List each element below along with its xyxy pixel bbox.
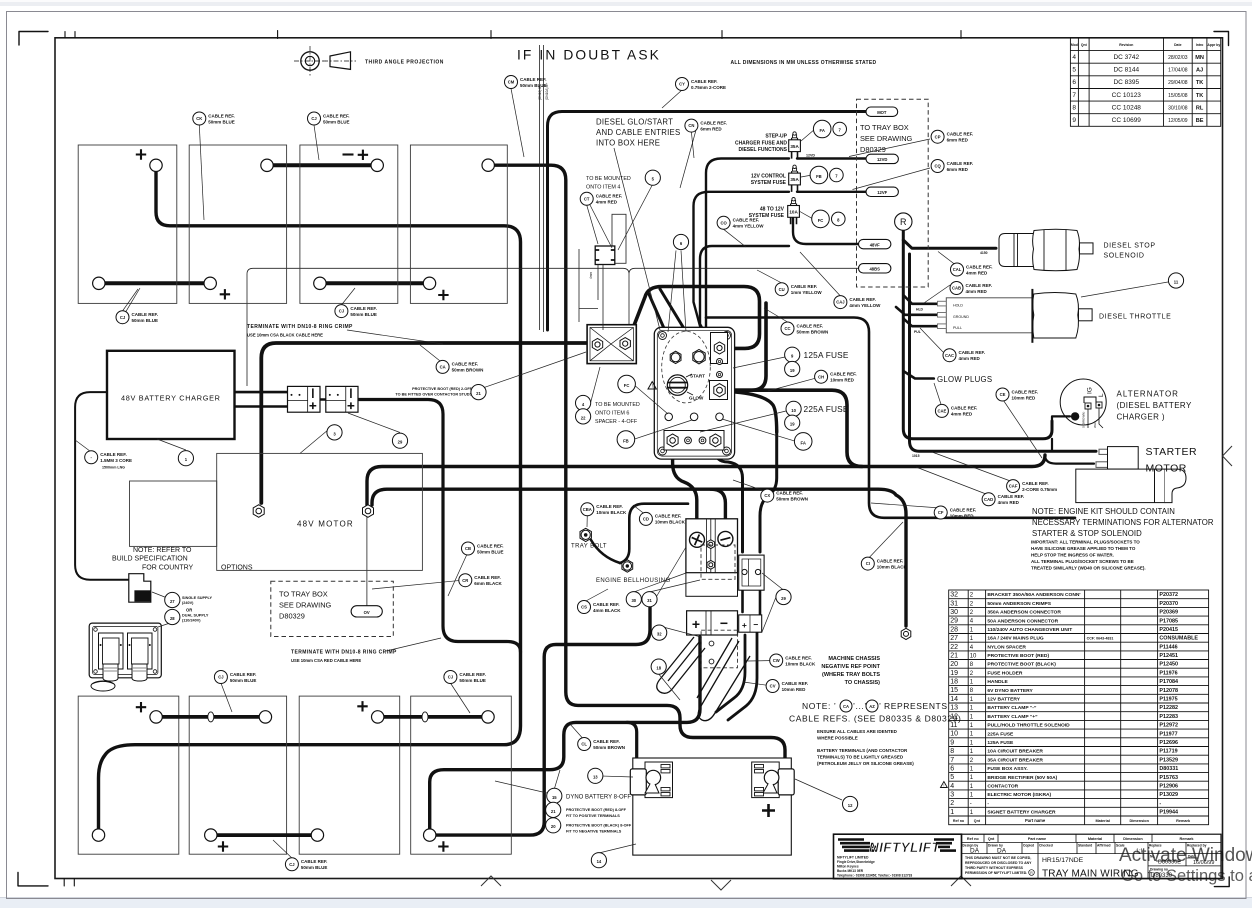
svg-text:ENSURE ALL CABLES ARE IDENTED: ENSURE ALL CABLES ARE IDENTED [817,729,898,734]
svg-text:50mm BLUE: 50mm BLUE [208,119,235,124]
svg-text:CY: CY [679,82,685,87]
wire: contactor loop over panel (n-loop) [628,287,760,349]
svg-text:OR: OR [186,608,192,613]
svg-text:19: 19 [790,368,795,373]
wire: CL 50mm brown from lower bank 4 up to anderson assembly [430,637,700,829]
plus terminal circle [689,532,704,547]
svg-text:TRAY BOLT: TRAY BOLT [571,544,607,550]
battery box row2-1 [78,696,179,854]
svg-text:FB: FB [623,438,629,443]
battery box row1-4 [410,145,507,303]
svg-text:CI: CI [866,561,870,566]
svg-text:Part name: Part name [1028,837,1046,841]
svg-text:30/10/08: 30/10/08 [1168,105,1188,111]
svg-text:50mm BLUE: 50mm BLUE [459,678,486,683]
plus marks row2 [136,702,146,712]
tray bolt [580,528,591,541]
svg-text:50A ANDERSON CONNECTOR: 50A ANDERSON CONNECTOR [987,618,1058,624]
MOT oval [866,107,898,116]
svg-text:SINGLE SUPPLY: SINGLE SUPPLY [182,596,212,600]
fuse FC 10A 48-12V [788,198,800,225]
svg-text:MOTOR: MOTOR [1146,463,1187,475]
svg-text:6mm RED: 6mm RED [947,167,969,172]
svg-text:(WHERE TRAY BOLTS: (WHERE TRAY BOLTS [822,672,880,678]
panel right terminal strip [711,333,728,364]
svg-text:110/240V AUTO CHANGEOVER UNIT: 110/240V AUTO CHANGEOVER UNIT [987,627,1072,633]
350A anderson connector assembly [686,519,738,597]
svg-text:OPTIONS: OPTIONS [221,564,253,571]
svg-text:Fingle Drive,Stonebridge: Fingle Drive,Stonebridge [837,860,875,864]
svg-text:Date: Date [1174,43,1181,47]
svg-text:Milton Keynes: Milton Keynes [837,865,859,869]
cable label CI [861,557,907,570]
wire: throttle hold stub [903,295,937,304]
svg-text:P17085: P17085 [1159,618,1178,624]
svg-text:NYLON SPACER: NYLON SPACER [987,644,1026,650]
svg-text:4mm RED: 4mm RED [951,412,973,417]
svg-text:29: 29 [398,440,403,445]
svg-text:0.75mm 2-CORE: 0.75mm 2-CORE [691,85,726,90]
cable label CAJ [834,296,881,309]
svg-text:DUAL SUPPLY: DUAL SUPPLY [182,614,209,618]
cable label CM [505,76,547,89]
svg-text:10mm RED: 10mm RED [950,513,975,518]
svg-text:CD: CD [643,517,649,522]
wire: R branch to diesel stop solenoid [903,240,996,248]
svg-text:Telephone:- 01908 223456; Tele: Telephone:- 01908 223456; Telefax:- 0190… [837,874,912,878]
wire: 48VF feed from 10A breaker [700,218,861,346]
svg-text:4: 4 [950,783,954,790]
item circle 1 [178,451,193,466]
svg-text:SEE DRAWING: SEE DRAWING [279,601,332,610]
svg-text:50mm BLUE: 50mm BLUE [301,865,328,870]
svg-text:PUL: PUL [914,330,921,334]
dashed bracket item30/31 [701,545,735,579]
corner trim mark bottom-left [18,873,48,886]
svg-text:FA: FA [801,440,806,445]
svg-text:2: 2 [950,800,954,807]
svg-text:REPRODUCED OR DISCLOSED TO ANY: REPRODUCED OR DISCLOSED TO ANY [965,861,1032,865]
starter motor [1076,447,1186,503]
parts table [949,590,1209,825]
svg-text:−: − [753,620,758,630]
svg-text:Revision: Revision [1119,43,1133,47]
busbars row2 [162,715,488,719]
item circle 13 [588,768,603,783]
svg-text:CAC: CAC [945,353,954,358]
wire: FA terminal loop down right [730,392,777,433]
svg-text:CABLE REF.: CABLE REF. [785,655,812,660]
svg-text:SOLENOID: SOLENOID [1104,253,1145,260]
item circle 21 [471,385,486,400]
svg-text:NOTE: REFER TO: NOTE: REFER TO [133,547,192,554]
item circle 14 [591,853,606,868]
svg-text:Ref no: Ref no [953,819,965,823]
svg-text:(DIESEL BATTERY: (DIESEL BATTERY [1117,401,1192,410]
svg-text:125A FUSE: 125A FUSE [987,740,1014,746]
wire: battery 4 top terminal down the middle (CM 50mm blue) [494,165,785,764]
svg-text:CE: CE [1000,392,1006,397]
svg-text:CT: CT [584,196,590,201]
svg-text:CABLE REF.: CABLE REF. [459,672,486,677]
svg-text:6V DYNO BATTERY: 6V DYNO BATTERY [987,688,1033,694]
fuse box panel (item 6) [654,327,734,459]
svg-text:29: 29 [781,596,786,601]
svg-text:CR: CR [462,578,468,583]
svg-text:CHARGER ): CHARGER ) [1117,413,1166,422]
wire: charger to anderson connector pair [235,392,326,406]
svg-text:CABLE REF.: CABLE REF. [830,372,857,377]
item circle 4 [576,395,591,410]
svg-text:CC 10248: CC 10248 [1112,104,1142,111]
svg-text:CC: CC [784,326,790,331]
svg-text:CC 10699: CC 10699 [1112,117,1142,124]
cable label CK [193,112,235,125]
svg-text:16A / 240V MAINS PLUG: 16A / 240V MAINS PLUG [987,636,1044,642]
svg-text:-: - [1159,801,1161,807]
frame tick marks bottom edge [64,879,74,887]
svg-text:-: - [970,801,972,807]
svg-text:STEP-UP: STEP-UP [765,134,787,140]
item circle 5 [645,170,660,185]
svg-text:CONTACTOR: CONTACTOR [987,783,1018,789]
svg-text:D80329: D80329 [279,612,305,621]
svg-text:12V CONTROL: 12V CONTROL [751,173,786,179]
svg-text:CABLE REF.: CABLE REF. [655,514,682,519]
svg-text:CABLE REF.: CABLE REF. [966,283,993,288]
svg-text:CU: CU [779,287,785,292]
svg-text:10mm BLACK: 10mm BLACK [596,510,627,515]
svg-text:P12696: P12696 [1159,740,1178,746]
svg-text:TK: TK [1196,93,1203,99]
svg-text:50mm BLUE: 50mm BLUE [477,549,504,554]
svg-text:48VF: 48VF [870,242,880,247]
svg-text:31: 31 [647,598,652,603]
svg-text:6: 6 [950,766,954,773]
svg-text:TO TRAY BOX: TO TRAY BOX [860,123,909,132]
svg-text:6mm BLACK: 6mm BLACK [474,581,502,586]
frame centering arrow right edge [1223,446,1233,466]
svg-text:Standard: Standard [1078,843,1092,847]
warning triangle on panel [648,382,656,390]
svg-text:CP: CP [935,134,941,139]
svg-text:P11976: P11976 [1159,670,1177,676]
item circle 32 [652,625,667,640]
svg-text:BATTERY TERMINALS (AND CONTACT: BATTERY TERMINALS (AND CONTACTOR [817,748,908,753]
svg-text:D80331: D80331 [1159,766,1178,772]
cable label CO [717,216,764,229]
svg-text:DC 8144: DC 8144 [1113,67,1139,74]
svg-text:FOR COUNTRY: FOR COUNTRY [142,564,194,571]
svg-text:THIRD ANGLE PROJECTION: THIRD ANGLE PROJECTION [365,60,444,66]
svg-text:P20372: P20372 [1159,592,1178,598]
wire: CF red wire to starter motor [706,318,1075,518]
svg-text:32: 32 [657,631,662,636]
svg-text:P11446: P11446 [1159,644,1177,650]
svg-text:350A ANDERSON CONNECTOR: 350A ANDERSON CONNECTOR [987,610,1061,616]
cable label CA [436,360,483,373]
svg-text:48 TO 12V: 48 TO 12V [760,206,785,212]
svg-text:MN: MN [1195,55,1204,61]
svg-text:50mm BLUE: 50mm BLUE [132,318,159,323]
svg-text:12V BATTERY: 12V BATTERY [987,697,1020,703]
svg-text:PULL: PULL [953,326,962,330]
svg-text:PROTECTIVE BOOT (BLACK): PROTECTIVE BOOT (BLACK) [987,662,1056,668]
svg-text:CO: CO [720,220,727,225]
svg-text:30: 30 [631,598,636,603]
lower anderson connector [687,611,738,635]
corner trim mark top-right [1214,32,1229,46]
svg-text:Mod: Mod [1071,43,1078,47]
svg-text:Checked: Checked [1039,843,1053,847]
svg-text:48BS: 48BS [869,267,880,272]
svg-text:Bucks MK13 0ER: Bucks MK13 0ER [837,869,864,873]
svg-text:CABLE REFS. (SEE D80335 & D803: CABLE REFS. (SEE D80335 & D80329) [789,714,961,724]
svg-text:12VF: 12VF [877,190,887,195]
svg-text:3: 3 [950,792,954,799]
svg-text:50mm BROWN: 50mm BROWN [593,745,625,750]
svg-text:CABLE REF.: CABLE REF. [323,113,350,118]
svg-text:4mm YELLOW: 4mm YELLOW [849,303,881,308]
wire: fuse box MOT feed along top [548,112,867,331]
svg-text:TERMINATE WITH DN10-8 RING CRI: TERMINATE WITH DN10-8 RING CRIMP [247,324,353,330]
svg-text:CABLE REF.: CABLE REF. [350,306,377,311]
svg-text:’: ’ [879,701,882,711]
svg-text:CABLE REF.: CABLE REF. [520,77,547,82]
svg-text:8: 8 [1072,104,1076,111]
svg-text:THIS DRAWING MUST NOT BE COPIE: THIS DRAWING MUST NOT BE COPIED, [965,856,1031,860]
svg-text:Affirmed: Affirmed [1097,843,1111,847]
alternator [1060,379,1106,428]
svg-text:20: 20 [950,661,958,668]
svg-text:Ref no: Ref no [967,837,979,841]
wire: CV red drop through handle [728,632,757,720]
svg-text:PROTECTIVE BOOT (RED) 2-OFF: PROTECTIVE BOOT (RED) 2-OFF [412,387,473,391]
svg-text:ONTO ITEM 4: ONTO ITEM 4 [586,185,620,191]
12VD oval [866,154,898,163]
svg-text:CS: CS [581,605,587,610]
wire: mains cable from charger to wall plug [75,392,128,580]
svg-text:CAF: CAF [1009,484,1018,489]
wire: alternator link [1052,416,1070,451]
svg-text:FA: FA [820,128,825,133]
svg-text:CL: CL [581,742,587,747]
svg-text:21: 21 [950,653,958,660]
svg-text:CAD: CAD [984,497,993,502]
note box (country options) [130,481,217,546]
dashed tray box lower with OV [271,581,394,636]
item circle 10 [786,401,801,416]
wire: CW black drop through handle [716,635,745,712]
svg-text:AJ: AJ [1196,68,1203,74]
svg-text:(110/240V): (110/240V) [182,619,201,623]
svg-text:15: 15 [950,687,958,694]
svg-text:10mm RED: 10mm RED [1012,395,1037,400]
panel nuts [670,351,681,363]
svg-text:AND CABLE ENTRIES: AND CABLE ENTRIES [596,128,680,137]
svg-text:PROTECTIVE BOOT (BLACK) 8-OFF: PROTECTIVE BOOT (BLACK) 8-OFF [566,824,632,828]
svg-text:4mm RED: 4mm RED [966,270,988,275]
cable label CP [931,130,973,143]
svg-text:DIESEL THROTTLE: DIESEL THROTTLE [1099,314,1171,321]
svg-text:P12078: P12078 [1159,688,1178,694]
svg-text:ALL TERMINAL PLUG/SOCKET SCREW: ALL TERMINAL PLUG/SOCKET SCREWS TO BE [1031,559,1134,564]
svg-text:CAL: CAL [953,267,962,272]
svg-text:CQ: CQ [934,164,941,169]
start/glow switch [667,374,693,395]
svg-text:CABLE REF.: CABLE REF. [947,132,974,137]
revision table [1070,38,1220,126]
third angle projection symbol [294,46,356,76]
svg-text:48V BATTERY CHARGER: 48V BATTERY CHARGER [121,394,221,403]
svg-text:SPACER - 4-OFF: SPACER - 4-OFF [595,419,638,425]
svg-text:2-CORE 0.75mm: 2-CORE 0.75mm [1022,487,1057,492]
svg-text:CAJ: CAJ [836,300,845,305]
svg-text:BRIDGE RECTIFIER (50V 50A): BRIDGE RECTIFIER (50V 50A) [987,775,1057,781]
svg-text:HR15/17NDE: HR15/17NDE [1042,857,1084,864]
svg-text:TO BE FITTED OVER CONTACTOR ST: TO BE FITTED OVER CONTACTOR STUDS [395,393,472,397]
cable label CAF [1007,480,1058,493]
item circle 29 [392,433,407,448]
svg-text:27: 27 [950,635,958,642]
svg-text:FUSE BOX ASSY.: FUSE BOX ASSY. [987,766,1028,772]
svg-text:10: 10 [791,408,796,413]
window bottom strip [0,897,1252,908]
cable label CE [996,388,1038,401]
anderson connector pair at charger [288,386,321,412]
item circle 18 [651,659,666,674]
battery box row1-1 [78,145,177,303]
svg-text:Part name: Part name [1025,818,1046,823]
svg-text:Dimension: Dimension [1123,837,1143,841]
svg-text:PULL/HOLD THROTTLE SOLENOID: PULL/HOLD THROTTLE SOLENOID [987,723,1070,729]
svg-text:125A FUSE: 125A FUSE [804,350,849,360]
cable label CT [580,192,622,205]
svg-text:P19944: P19944 [1159,810,1178,816]
item circle 19 [785,415,800,430]
svg-text:START: START [690,374,705,379]
svg-text:30: 30 [950,609,958,616]
svg-text:CABLE REF.: CABLE REF. [208,113,235,118]
svg-text:50mm BROWN: 50mm BROWN [797,329,829,334]
svg-text:13: 13 [593,775,598,780]
svg-text:OV: OV [364,610,370,615]
svg-text:!: ! [652,384,653,390]
battery box row2-3 [299,696,400,854]
item circle 3 [327,425,342,440]
48V battery charger [107,351,235,439]
svg-text:DIESEL STOP: DIESEL STOP [1104,243,1156,250]
svg-text:12VD: 12VD [806,154,815,158]
cable label CC [781,322,828,335]
window top strip [0,0,1252,2]
svg-text:50mm BROWN: 50mm BROWN [776,496,808,501]
wire: glow plugs stub [903,371,934,379]
svg-text:18: 18 [656,665,661,670]
svg-text:10: 10 [950,731,958,738]
svg-text:CABLE REF.: CABLE REF. [776,490,803,495]
svg-text:USE 10mm CSA BLACK CABLE HERE: USE 10mm CSA BLACK CABLE HERE [247,333,323,338]
svg-text:DA: DA [997,847,1007,854]
svg-text:CW: CW [773,658,780,663]
svg-text:GROUND: GROUND [953,315,969,319]
svg-text:WHT: WHT [1093,421,1097,428]
handle item18 [657,637,750,721]
svg-text:7: 7 [950,757,954,764]
svg-text:USE 10mm CSA RED CABLE HERE: USE 10mm CSA RED CABLE HERE [291,658,361,663]
svg-text:NEGATIVE REF POINT: NEGATIVE REF POINT [821,664,880,670]
svg-text:P20415: P20415 [1159,627,1178,633]
battery clamp right (item 12) [752,762,795,798]
cable label CJ [308,112,350,125]
frame centering arrow bottom x=721 [711,880,731,890]
title block [834,834,1222,879]
12VF oval [866,187,898,196]
svg-text:CABLE REF.: CABLE REF. [782,681,809,686]
item circle 9 [785,347,800,362]
svg-text:10mm RED: 10mm RED [782,687,807,692]
battery box row1-2 [189,145,286,303]
svg-text:9: 9 [950,739,954,746]
svg-text:14: 14 [597,859,602,864]
48BS oval [859,264,891,273]
svg-text:MACHINE CHASSIS: MACHINE CHASSIS [828,656,880,662]
wire: motor lower wire to fuse assembly minus [372,489,906,626]
cable label CJ [285,858,327,871]
svg-text:P12451: P12451 [1159,653,1178,659]
svg-text:1.5MM 3 CORE: 1.5MM 3 CORE [100,458,132,463]
svg-text:PROTECTIVE BOOT (RED) 8-OFF: PROTECTIVE BOOT (RED) 8-OFF [566,808,627,812]
svg-text:NIFTYLIFT: NIFTYLIFT [869,840,941,855]
svg-text:CC 10123: CC 10123 [1112,92,1142,99]
item circle 29 [776,589,791,604]
fuse FA 35A step-up [789,132,801,159]
svg-text:FC: FC [624,383,630,388]
svg-text:ELECTRIC MOTOR (ISKRA): ELECTRIC MOTOR (ISKRA) [987,792,1051,798]
wire: battery bank 1 top terminal to lower bank (CK 50mm blue long loop) [99,171,521,828]
wire: 12VD fuse feed [706,159,866,345]
svg-text:35A: 35A [790,144,799,149]
diesel stop solenoid [999,229,1093,271]
warning triangle at row4 [941,782,948,788]
battery clamp left (item 13) [630,762,672,798]
svg-text:TO TRAY BOX: TO TRAY BOX [279,590,328,599]
svg-text:CABLE REF.: CABLE REF. [474,575,501,580]
svg-text:CN: CN [688,123,694,128]
svg-text:CABLE REF.: CABLE REF. [593,739,620,744]
svg-text:50mm BLUE: 50mm BLUE [230,678,257,683]
svg-text:SYSTEM FUSE: SYSTEM FUSE [751,180,787,186]
svg-text:CABLE REF.: CABLE REF. [691,79,718,84]
svg-text:10A: 10A [789,210,798,215]
svg-text:22: 22 [581,415,586,420]
frame centering arrow bottom x=491 [481,876,501,886]
svg-text:CABLE REF.: CABLE REF. [950,507,977,512]
svg-text:21: 21 [551,809,556,814]
svg-text:CABLE REF.: CABLE REF. [797,323,824,328]
svg-text:PROTECTIVE BOOT (RED): PROTECTIVE BOOT (RED) [987,653,1049,659]
svg-text:11: 11 [1174,279,1179,284]
svg-text:IMPORTANT: ALL TERMINAL PLUGS/: IMPORTANT: ALL TERMINAL PLUGS/SOCKETS TO [1031,540,1140,545]
wire: thin bundle down left of panel [540,45,544,332]
svg-text:CABLE REF.: CABLE REF. [230,672,257,677]
bracket item32 dashed [701,630,737,668]
svg-text:NOTE: ENGINE KIT SHOULD CONTAI: NOTE: ENGINE KIT SHOULD CONTAIN [1032,507,1175,516]
svg-text:BRACKET 350A/50A ANDERSON CONN: BRACKET 350A/50A ANDERSON CONN' [987,592,1080,598]
svg-text:ALL DIMENSIONS IN MM UNLESS OT: ALL DIMENSIONS IN MM UNLESS OTHERWISE ST… [731,60,877,66]
svg-text:P17084: P17084 [1159,679,1178,685]
wire: contactor to 48V motor (CA 50mm brown) [261,343,592,503]
